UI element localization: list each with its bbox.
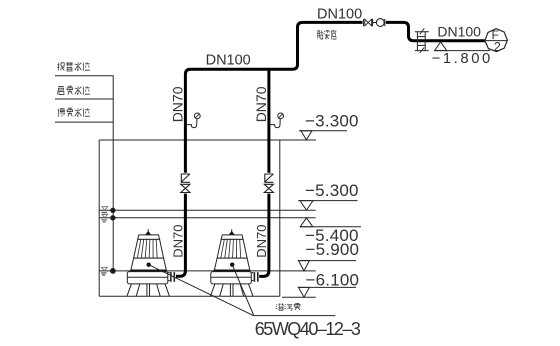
- wire: level reference vertical: [112, 76, 114, 271]
- wire: stop level label line: [55, 121, 114, 123]
- pump P2 motor ribs: [221, 239, 241, 258]
- water line 2 (-5.400): [99, 217, 316, 219]
- water line 3 (-5.900): [99, 270, 316, 272]
- label 停泵水位 (stop water level, stroke glyphs): [58, 108, 90, 117]
- svg-text:DN70: DN70: [171, 225, 186, 258]
- pump P1 motor ribs: [137, 239, 157, 258]
- water surface symbol on line1: [102, 207, 108, 215]
- check valve V3 on riser2: [264, 174, 273, 182]
- svg-text:−5.900: −5.900: [306, 240, 360, 259]
- elevation marker -3.300: [299, 131, 347, 140]
- pump P1 volute casing: [127, 272, 168, 284]
- pipe: pump P2 discharge riser DN70: [259, 194, 269, 277]
- elevation marker -5.300: [298, 201, 357, 211]
- pump P1 leader dot: [147, 263, 151, 267]
- pressure gauge PG2: [270, 113, 283, 128]
- pump P1 seal housing: [131, 258, 166, 270]
- wire: start level label line: [55, 98, 114, 100]
- pump P2 seal housing: [214, 258, 249, 270]
- pump P1 motor cap: [138, 235, 160, 240]
- node: junction dot line3: [111, 269, 116, 274]
- water line 1 (-5.300): [99, 209, 316, 211]
- svg-text:DN70: DN70: [254, 225, 269, 258]
- pit floor line: [99, 295, 280, 297]
- svg-text:DN70: DN70: [253, 86, 269, 122]
- pump P1 legs: [127, 284, 170, 296]
- svg-text:−5.300: −5.300: [305, 181, 359, 200]
- svg-text:−1.800: −1.800: [432, 51, 493, 67]
- leader line from P1: [149, 265, 254, 316]
- svg-text:DN100: DN100: [437, 24, 481, 40]
- pit top slab line (-3.300 level): [99, 139, 316, 141]
- waterproof sleeve through wall: [415, 28, 429, 53]
- pipe: riser2 upper segment: [267, 68, 270, 173]
- svg-text:−6.100: −6.100: [306, 270, 360, 289]
- svg-text:DN70: DN70: [170, 86, 186, 122]
- pump P1 lifting eye: [147, 229, 149, 233]
- pump P1 housing bold edge: [130, 270, 166, 272]
- pump P2 housing bold edge: [214, 270, 250, 272]
- leader horizontal line: [253, 315, 335, 317]
- pump P2: [210, 229, 257, 296]
- svg-text:65WQ40–12–3: 65WQ40–12–3: [255, 319, 361, 339]
- pump P2 outlet flange: [251, 273, 253, 281]
- water surface symbol on line3: [101, 267, 107, 275]
- node: junction dot line1: [111, 208, 115, 212]
- pump P2 lifting eye: [231, 229, 233, 233]
- drawing reference bubble F/2: [485, 29, 508, 52]
- label 报警水位 (alarm water level, stroke glyphs): [57, 62, 89, 71]
- gate valve V2 on riser1: [181, 184, 190, 192]
- main pipework (thick): [176, 22, 485, 276]
- pump P2 volute casing: [211, 272, 252, 284]
- pipe: pump P1 discharge riser DN70: [176, 194, 185, 277]
- pump P1 outlet flange: [168, 273, 170, 281]
- floor elevation extension line: [282, 296, 316, 298]
- water surface symbol on line2: [102, 214, 108, 222]
- pump P2 leader dot: [230, 263, 234, 267]
- pressure gauge PG1: [187, 113, 200, 128]
- pit right wall: [279, 140, 281, 296]
- pump P1 motor cone: [134, 239, 164, 258]
- node: junction dot line2: [111, 216, 115, 220]
- wire: alarm level label line: [55, 75, 114, 77]
- pump P1: [127, 229, 174, 296]
- check valve V1 on riser1: [181, 174, 190, 182]
- svg-text:DN100: DN100: [206, 53, 251, 69]
- gate valve V4 on riser2: [264, 184, 273, 192]
- pump P2 motor cap: [221, 235, 243, 240]
- elevation marker -1.800 (inverted): [434, 42, 490, 51]
- gate valve V5 on top run: [364, 19, 373, 26]
- svg-text:DN100: DN100: [317, 6, 362, 22]
- pipe: top run after valves, drop, lower run DN100: [386, 22, 485, 40]
- check valve V6 (circle) on top run: [373, 19, 385, 27]
- svg-text:−3.300: −3.300: [305, 112, 359, 131]
- pit left wall: [98, 140, 100, 296]
- elevation marker -6.100: [298, 287, 356, 297]
- pump P2 motor cone: [217, 239, 247, 258]
- svg-text:2: 2: [494, 40, 501, 54]
- leader line from P2: [232, 265, 254, 316]
- pipe: riser DN70 upper + header DN100 + top run: [185, 22, 362, 172]
- label 贴梁底 (stick to beam soffit, stroke glyphs): [317, 30, 336, 40]
- elevation marker -5.900: [298, 261, 356, 271]
- elevation marker -5.400 (inverted): [300, 218, 361, 227]
- label 潜污泵 (submersible sewage pump, stroke glyphs): [276, 303, 300, 310]
- label 启泵水位 (start water level, stroke glyphs): [58, 86, 90, 95]
- pump P2 legs: [210, 284, 253, 296]
